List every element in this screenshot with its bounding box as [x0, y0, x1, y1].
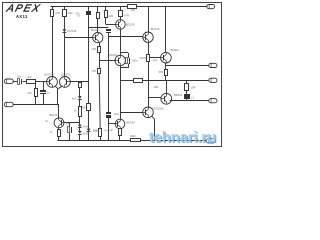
svg-text:1R: 1R	[109, 128, 112, 132]
svg-text:47R: 47R	[153, 60, 158, 63]
svg-text:47R: 47R	[124, 14, 129, 18]
svg-text:47u: 47u	[66, 122, 71, 126]
svg-text:1n: 1n	[47, 91, 50, 95]
svg-text:1N4148: 1N4148	[67, 29, 77, 33]
svg-text:BD139: BD139	[151, 27, 160, 31]
svg-text:100R: 100R	[139, 56, 145, 60]
svg-text:47k: 47k	[27, 91, 32, 95]
svg-text:100u: 100u	[114, 113, 120, 116]
svg-text:10R: 10R	[68, 11, 73, 15]
svg-text:AX11: AX11	[16, 14, 28, 19]
svg-text:5R6: 5R6	[159, 70, 164, 74]
svg-text:BD139: BD139	[126, 22, 135, 26]
svg-text:47R: 47R	[91, 47, 96, 51]
svg-text:4u7: 4u7	[72, 97, 77, 101]
svg-text:10R: 10R	[154, 85, 159, 89]
svg-text:4148: 4148	[93, 129, 99, 132]
svg-text:2SC5200: 2SC5200	[152, 107, 164, 111]
svg-text:10R: 10R	[191, 86, 196, 90]
svg-text:680: 680	[82, 107, 87, 110]
svg-text:10R: 10R	[55, 11, 60, 15]
svg-text:4148: 4148	[83, 126, 89, 129]
svg-text:2SA970: 2SA970	[61, 72, 71, 76]
svg-text:2k2: 2k2	[27, 75, 32, 79]
svg-text:BD139: BD139	[109, 54, 117, 57]
svg-text:47R: 47R	[91, 69, 96, 73]
svg-text:10R: 10R	[108, 15, 113, 18]
svg-text:L1: L1	[191, 95, 194, 99]
svg-text:BD911: BD911	[174, 93, 183, 97]
svg-text:R100: R100	[130, 135, 137, 138]
svg-text:BD140: BD140	[126, 120, 135, 124]
svg-text:2SA970: 2SA970	[44, 72, 54, 76]
svg-text:10R: 10R	[130, 8, 135, 12]
svg-text:BF423: BF423	[91, 29, 99, 32]
svg-text:tehnari.ru: tehnari.ru	[149, 129, 216, 146]
svg-text:10u: 10u	[17, 75, 22, 79]
svg-text:4148: 4148	[83, 132, 89, 135]
svg-text:APEX: APEX	[4, 4, 42, 15]
svg-text:BD139: BD139	[49, 113, 57, 117]
svg-text:100u: 100u	[131, 59, 137, 63]
svg-text:BD911: BD911	[170, 48, 179, 52]
